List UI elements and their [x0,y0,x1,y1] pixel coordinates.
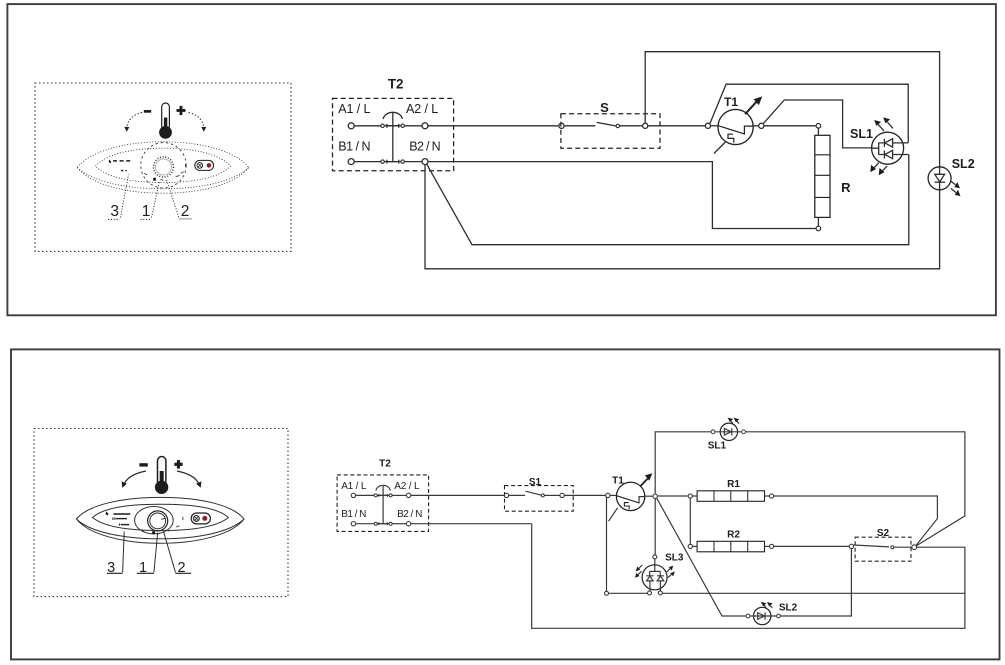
switch S1 dashed box [505,486,574,512]
signal lamp SL3 [642,559,667,591]
switch S1 blade [526,491,542,495]
SL1 light arrows lower [870,163,887,175]
device outer oval (dotted) [77,142,249,193]
underline of 1 [137,572,154,574]
actuator arc above tie [383,112,402,119]
knob ticked ring [154,157,174,177]
knob pointer tick [161,518,165,519]
leader 3 [123,532,125,573]
svg-text:A1 / L: A1 / L [338,102,370,116]
knob inner circle [150,513,166,529]
PANEL 2 CIRCUIT [337,418,965,629]
dotted rotate arc right with arrowhead [189,113,207,132]
T1 gate lead [609,508,618,521]
triac T1 [718,96,762,144]
dotted leader 2 [167,180,179,217]
wire S contact to junction [620,125,643,127]
contact node B row right [389,522,392,525]
wire S2 contact to node [894,546,912,548]
wire A2/L to switch S [428,125,559,127]
dotted enclosure box (device inset, panel 2) [34,429,288,597]
wire contact to B2/N [392,523,406,525]
svg-text:R: R [841,180,851,195]
node R1 left [688,494,692,498]
underline of 3 [107,572,123,574]
switch S blade [597,122,617,126]
terminal block T2 dashed box [337,475,429,532]
switch S1 contact node [541,494,544,497]
resistor R [815,124,830,231]
svg-text:R1: R1 [727,479,740,490]
svg-text:S: S [600,100,609,115]
knob outer circle [148,511,168,531]
wire SL3 bottom right to neutral riser [662,592,965,594]
wire junction to R1 [657,495,688,497]
SL3 light arrows left [635,565,643,578]
dial marker square [153,178,156,181]
dial small ticks [141,517,183,532]
terminal B1/N [351,522,355,526]
svg-text:B2 / N: B2 / N [397,509,422,520]
contact node A row right [401,124,404,127]
node SL3 bottom right [658,591,662,595]
dotted leader 3 [121,175,129,218]
switch S2 left terminal [849,544,853,548]
contact node B row right [401,160,404,163]
wire B2/N to R bottom [428,162,816,229]
SL1 light arrows upper [874,117,893,131]
device lower rim line [76,519,244,539]
terminal B2/N [422,159,428,165]
minus label [139,463,147,466]
node SL3 bottom left [648,591,652,595]
switch S2 blade [854,545,889,547]
contact node B row left [374,522,377,525]
wire T1 right node to R [764,125,816,127]
dotted enclosure box (device inset, panel 1) [35,83,291,251]
node R2 left [688,544,692,548]
svg-text:2: 2 [181,203,190,220]
wire B2/N diagonal to SL1 bottom return [427,155,909,245]
panel 2 border frame [11,349,1000,659]
SL2 light arrows [761,602,773,608]
T1 gate lead [714,142,726,154]
left icons: flame + dashed program lines [109,160,131,171]
leader 1 [154,533,158,573]
dotted leader 1 [152,181,160,218]
wire A2/L to switch S1 [411,494,505,496]
T1 left terminal node [705,123,710,128]
right pill with screw and red LED dot [195,160,214,170]
ganged switch tie bar [387,113,399,164]
T1 left terminal node [606,493,610,497]
plus label [177,106,186,115]
terminal A1/L [351,493,355,497]
svg-text:T2: T2 [388,76,404,91]
svg-text:SL2: SL2 [779,603,798,614]
SL3 light arrows right [667,566,675,578]
node SL3 top [653,555,657,559]
svg-text:T2: T2 [379,459,391,470]
wire SL1 right across and down to S2 node [746,432,965,546]
terminal A2/L [422,123,428,129]
signal lamp SL1 [711,423,745,440]
svg-text:A1 / L: A1 / L [341,481,367,492]
wire T1 left diagonal up to SL1 top feed [710,84,908,143]
terminal block T2 dashed box [333,98,454,170]
svg-text:T1: T1 [612,475,624,486]
node T1 output junction [653,494,657,498]
wire B1/N to contact [356,523,375,525]
dial marker square [152,531,155,534]
svg-text:S1: S1 [529,477,542,488]
wire junction to T1 [648,125,706,127]
wire T1 left node to body [610,494,616,496]
PANEL 1 CIRCUIT [333,52,975,269]
wire S1 contact to right terminal [544,494,560,496]
dotted underline of 1 [140,218,151,220]
wire R2 right to S2 [774,545,850,547]
rotate arc left with arrowhead [122,471,146,488]
wire A row contact gap [384,125,401,127]
PANEL 2 LEFT: thermostat device pictogram (solid style) [76,457,244,576]
left icons: flame + program lines [106,511,131,525]
wire R1 right to S2 node [774,496,938,546]
contact node A row left [381,124,384,127]
thermometer icon [159,103,172,139]
signal lamp SL2 [928,167,951,190]
SL2 light arrows [950,181,960,197]
rotate arc right with arrowhead [177,471,201,488]
right pill with screw and red LED dot [191,513,210,524]
svg-text:SL1: SL1 [708,441,727,452]
svg-text:1: 1 [142,203,151,220]
svg-text:SL3: SL3 [665,553,684,564]
switch S dashed box [561,114,660,148]
wire B row contact gap [384,161,401,163]
svg-text:A2 / L: A2 / L [406,102,438,116]
svg-text:A2 / L: A2 / L [394,481,420,492]
wire contact to A2/L [392,494,406,496]
dial dashed circle [141,143,186,188]
wire T1 left terminal down to SL3 return [606,498,608,592]
device inner faceplate [93,504,229,530]
wire S1 to T1 [564,494,605,496]
underline of 2 [179,218,192,220]
panel 1 border frame [7,4,996,315]
wire B row contact gap [377,523,389,525]
wire tie R1 left to R2 left [689,498,691,544]
wire contact to B2/N [404,161,422,163]
wire B2/N down and across to SL2 bottom [425,165,940,269]
svg-text:R2: R2 [727,530,740,541]
SL1 light arrows [728,418,740,424]
wire corner to SL3 bottom left [609,592,648,594]
dial small ticks [144,164,185,180]
svg-text:3: 3 [110,203,119,220]
contact node A row left [374,494,377,497]
resistor R1 [692,491,769,502]
svg-text:B1 / N: B1 / N [341,509,366,520]
svg-text:SL2: SL2 [952,157,975,171]
wire S2 node right and down to neutral run [532,524,965,629]
thermometer icon [155,457,168,494]
dotted rotate arc left with arrowhead [124,113,142,132]
node R2 right [770,544,774,548]
wire S left terminal to blade [564,125,595,127]
device inner faceplate (dotted) [96,148,231,182]
svg-text:T1: T1 [724,95,738,109]
terminal A2/L [406,493,410,497]
svg-text:S2: S2 [877,528,890,539]
ganged switch tie bar [379,486,388,525]
PANEL 1 LEFT: thermostat device pictogram [77,103,249,220]
svg-text:B2 / N: B2 / N [409,139,440,153]
switch S left terminal [559,123,564,128]
resistor R2 [692,541,769,552]
wire SL2 right to S2 left drop [780,549,851,616]
leader 2 [164,532,176,573]
wire S1 left terminal to blade [509,494,525,496]
signal lamp SL1 [872,132,909,164]
wire T1 body to right node [753,125,759,127]
plus label [174,460,182,468]
terminal A1/L [348,123,354,129]
contact node A row right [389,494,392,497]
wire A1/L to contact [354,125,381,127]
svg-text:B1 / N: B1 / N [338,139,370,153]
signal lamp SL2 [746,607,780,624]
switch S1 right terminal [560,493,564,497]
actuator arc above tie [376,485,390,490]
underline of 2 [176,572,192,574]
wire B2/N to neutral corner [411,523,532,525]
terminal B1/N [348,159,354,165]
triac T1 [616,473,652,510]
switch S2 dashed box [855,537,911,561]
wire A row contact gap [377,494,389,496]
minus label [144,110,151,113]
node corner below T1 [605,591,609,595]
wire junction up to SL1 [655,432,711,494]
wire A1/L to contact [356,494,375,496]
switch S2 contact node [891,546,894,549]
node junction at S output [643,123,648,128]
wire T1 left node to body [711,125,719,127]
device outer oval [76,497,244,543]
contact node B row left [381,160,384,163]
T1 right terminal node [759,123,764,128]
svg-text:SL1: SL1 [850,127,873,141]
terminal B2/N [406,522,410,526]
device lower rim line (dotted) [77,168,249,189]
wire B1/N to contact [354,161,381,163]
switch S1 left terminal [504,493,508,497]
dotted underline of 3 [108,218,120,220]
wire junction up and across to SL2 [645,52,939,167]
node S2 right junction [912,545,917,550]
wire T1 body to output node [645,495,653,497]
wire T1 right diagonal to SL1 left feed [763,100,871,148]
dial recess ellipse [135,507,174,534]
switch S contact node [616,124,619,127]
wire junction diagonal to SL2 [657,498,746,616]
node R1 right [770,494,774,498]
wire contact to A2/L [404,125,422,127]
wire junction down to SL3 [654,498,656,555]
